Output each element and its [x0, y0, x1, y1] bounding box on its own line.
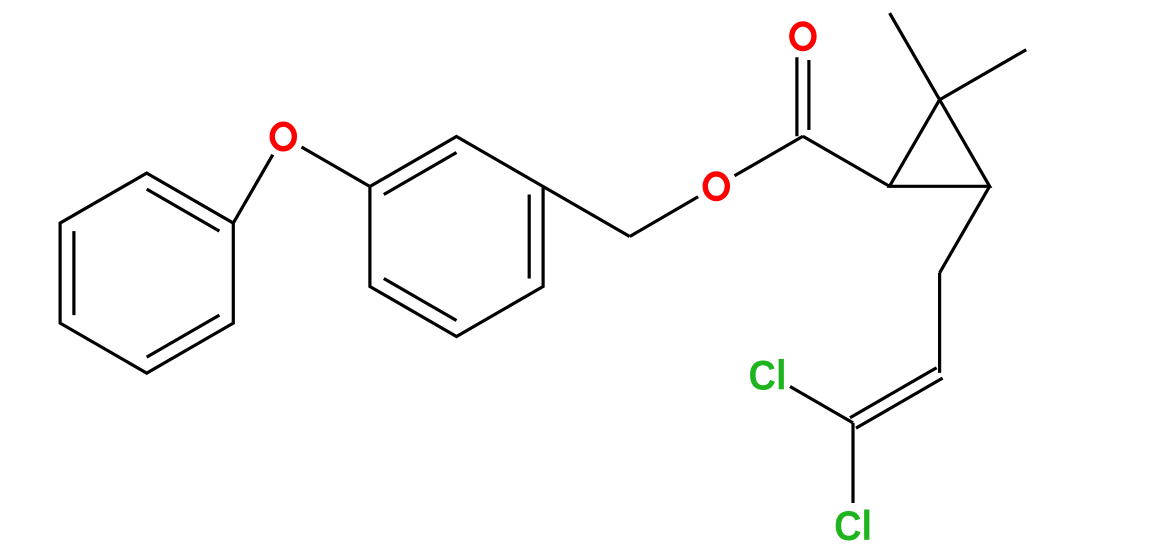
middle ring inner double bond line (bottom-left edge): [384, 279, 457, 321]
bond benzylic CH2 to ester O: [630, 197, 698, 237]
carbonyl C=O double bond line 2: [807, 60, 810, 130]
carbonyl C=O double bond line 1: [795, 57, 798, 136]
left ring inner double bond line (top-right edge): [147, 189, 220, 231]
middle ring inner double bond line (top-left edge): [384, 153, 457, 195]
ether oxygen atom label O: [272, 124, 294, 149]
carbonyl oxygen atom label O: [792, 24, 814, 49]
cyclopropane ring triangle: [890, 100, 990, 187]
bond ether O to middle ring: [302, 147, 370, 187]
bond left ring to ether O: [233, 155, 272, 223]
bond allylic CH2 down to vinyl CH: [938, 273, 941, 373]
bond cyclopropane C3 to allylic CH2: [940, 186, 990, 273]
left ring inner double bond line (bottom-right edge): [147, 315, 220, 357]
svg-text:Cl: Cl: [749, 351, 787, 398]
bond middle ring to benzylic CH2: [543, 187, 630, 237]
vinyl C=C double bond line 2: [856, 378, 943, 428]
bond methyl 2 from gem-dimethyl C: [940, 50, 1027, 100]
ester oxygen atom label O: [705, 174, 727, 199]
bond CCl2 to Cl label 2: [851, 423, 854, 503]
bond carbonyl C to cyclopropane C1: [803, 136, 890, 186]
left benzene ring outline: [60, 173, 233, 373]
vinyl C=C double bond line 1: [850, 368, 937, 418]
svg-text:Cl: Cl: [834, 502, 872, 549]
bond CCl2 to Cl label 1: [790, 387, 853, 423]
left ring inner double bond line (left edge): [72, 231, 75, 315]
bond methyl 1 from gem-dimethyl C: [890, 13, 940, 100]
middle benzene ring outline: [370, 137, 543, 337]
middle ring inner double bond line (right edge): [528, 195, 531, 279]
bond ester O to carbonyl C: [735, 136, 803, 176]
